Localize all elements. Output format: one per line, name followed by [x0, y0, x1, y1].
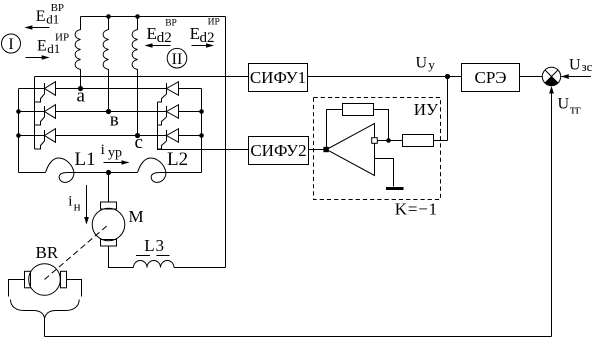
svg-text:BR: BR: [36, 243, 59, 262]
svg-text:ИР: ИР: [55, 32, 69, 44]
svg-text:СИФУ1: СИФУ1: [250, 68, 306, 87]
svg-text:ВР: ВР: [165, 18, 177, 28]
svg-text:с: с: [135, 132, 143, 153]
svg-text:d2: d2: [200, 30, 215, 46]
svg-text:II: II: [172, 51, 183, 68]
svg-text:СИФУ2: СИФУ2: [250, 141, 306, 160]
svg-text:ВР: ВР: [51, 2, 64, 14]
svg-text:в: в: [110, 109, 119, 130]
svg-text:K=−1: K=−1: [395, 200, 438, 219]
svg-text:зс: зс: [582, 59, 593, 74]
svg-text:E: E: [37, 38, 47, 55]
svg-text:U: U: [558, 95, 570, 112]
svg-text:н: н: [74, 199, 81, 214]
svg-text:U: U: [416, 54, 428, 71]
svg-text:M: M: [129, 207, 144, 226]
svg-text:ИУ: ИУ: [414, 100, 439, 119]
svg-text:E: E: [36, 8, 46, 25]
svg-text:E: E: [190, 24, 200, 43]
svg-text:U: U: [569, 57, 581, 74]
svg-text:d2: d2: [157, 30, 172, 46]
svg-text:I: I: [8, 36, 13, 53]
svg-text:ИР: ИР: [208, 18, 220, 28]
svg-text:L1: L1: [75, 149, 96, 170]
svg-text:тг: тг: [570, 102, 581, 117]
svg-text:a: a: [77, 85, 86, 106]
svg-text:L2: L2: [167, 149, 188, 170]
svg-text:СРЭ: СРЭ: [474, 68, 506, 87]
svg-text:E: E: [147, 24, 157, 43]
svg-text:ур: ур: [108, 145, 122, 160]
svg-text:у: у: [428, 57, 435, 72]
svg-text:i: i: [68, 194, 72, 210]
svg-text:i: i: [101, 142, 105, 158]
svg-text:L3: L3: [144, 236, 164, 255]
